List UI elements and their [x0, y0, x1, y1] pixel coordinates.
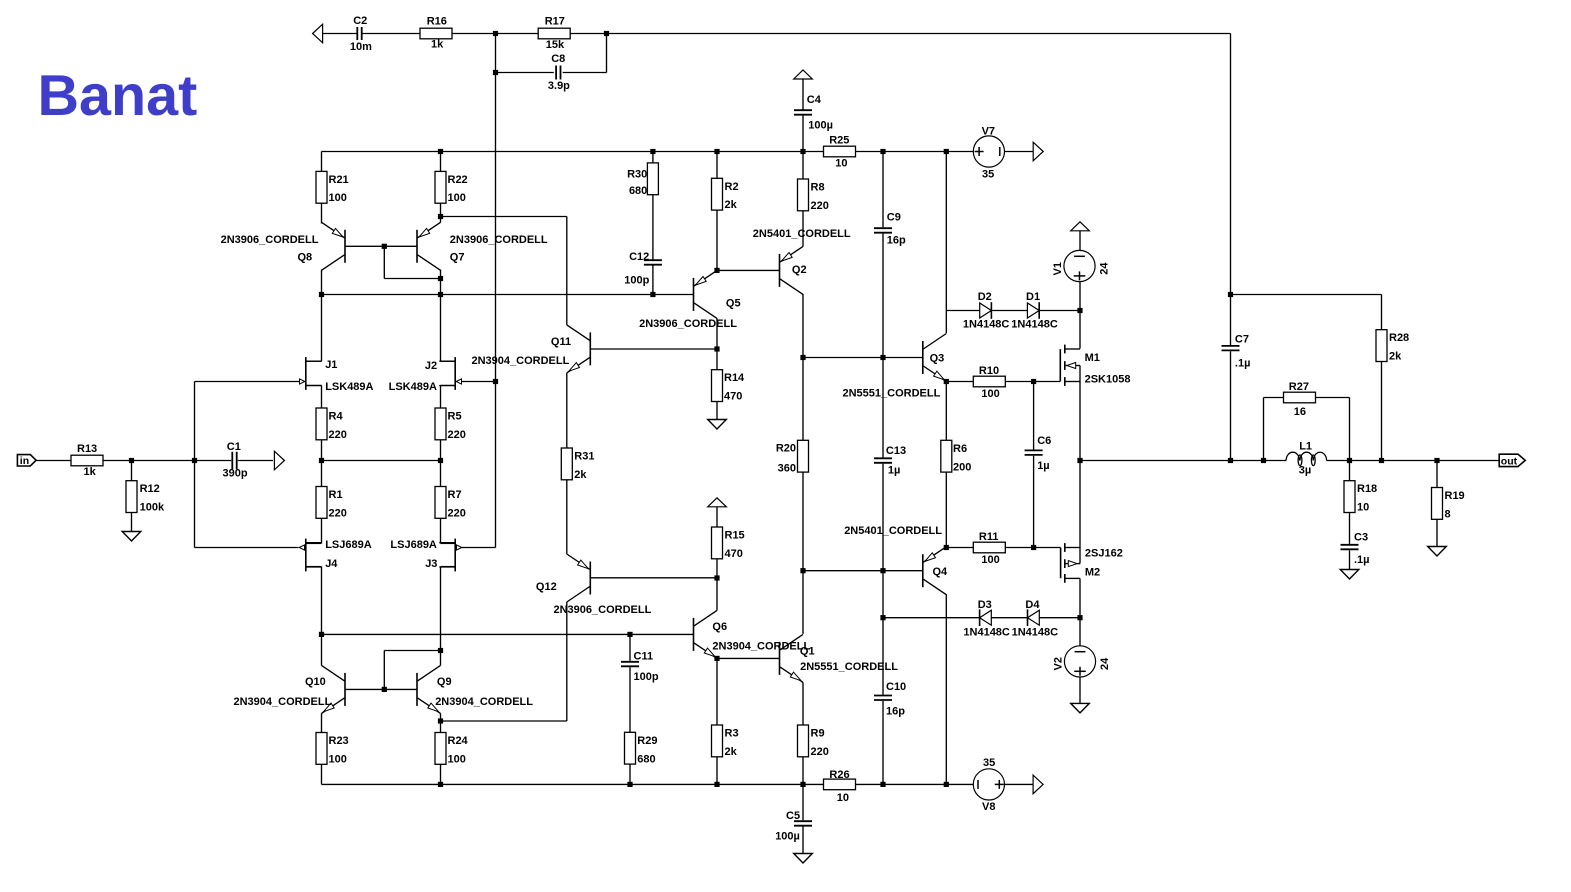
wire: [321, 634, 323, 665]
svg-text:C7: C7: [1235, 333, 1249, 345]
capacitor C12: [644, 259, 662, 261]
svg-text:1µ: 1µ: [888, 465, 900, 477]
svg-text:LSJ689A: LSJ689A: [325, 539, 372, 551]
svg-text:1µ: 1µ: [1037, 460, 1049, 472]
resistor R24: [435, 733, 446, 765]
wire: [716, 578, 718, 611]
svg-text:8: 8: [1445, 508, 1451, 520]
svg-text:1N4148C: 1N4148C: [963, 318, 1010, 330]
junction: [1261, 458, 1266, 463]
svg-text:Q10: Q10: [305, 676, 326, 688]
svg-text:R14: R14: [724, 372, 745, 384]
svg-text:out: out: [1501, 455, 1518, 467]
svg-text:Q2: Q2: [792, 264, 807, 276]
wire: [440, 295, 442, 362]
capacitor C9: [874, 227, 892, 229]
junction: [493, 31, 498, 36]
svg-text:J2: J2: [425, 360, 437, 372]
wire: [1079, 578, 1081, 617]
svg-text:R26: R26: [829, 769, 849, 781]
junction: [129, 458, 134, 463]
svg-text:C10: C10: [886, 681, 906, 693]
svg-text:C6: C6: [1037, 435, 1051, 447]
resistor R25: [824, 146, 856, 157]
junction: [880, 615, 885, 620]
svg-text:R20: R20: [776, 442, 796, 454]
junction: [319, 458, 324, 463]
svg-text:390p: 390p: [223, 467, 248, 479]
wire: [194, 382, 196, 548]
wire: [716, 658, 718, 725]
wire: [566, 217, 568, 325]
transistor Q3 2N5551_CORDELL: [922, 341, 924, 374]
junction: [382, 687, 387, 692]
wire: [1436, 461, 1438, 488]
capacitor C10: [874, 695, 892, 697]
svg-text:35: 35: [982, 169, 994, 181]
transistor Q10 2N3904_CORDELL: [344, 673, 346, 706]
wire: [1316, 397, 1350, 399]
junction: [382, 244, 387, 249]
junction: [493, 70, 498, 75]
wire: [629, 667, 631, 732]
svg-text:100: 100: [981, 388, 999, 400]
svg-text:3.9p: 3.9p: [548, 80, 570, 92]
wire: [440, 651, 442, 666]
wire: [322, 633, 694, 635]
wire: [1230, 34, 1232, 295]
svg-text:.1µ: .1µ: [1354, 554, 1370, 566]
svg-text:J3: J3: [425, 558, 437, 570]
capacitor C6: [1025, 449, 1043, 451]
junction: [944, 782, 949, 787]
svg-text:C12: C12: [629, 251, 649, 263]
svg-text:100: 100: [329, 192, 347, 204]
wire: [717, 269, 780, 271]
wire: [882, 234, 884, 358]
svg-text:V1: V1: [1052, 262, 1064, 275]
capacitor C4: [794, 109, 812, 111]
wire: [1039, 617, 1080, 619]
wire: [1005, 381, 1033, 383]
svg-text:R11: R11: [979, 531, 999, 543]
svg-text:R24: R24: [448, 735, 469, 747]
svg-text:2SK1058: 2SK1058: [1085, 374, 1131, 386]
svg-text:R12: R12: [140, 483, 160, 495]
wire: [495, 34, 497, 548]
svg-text:470: 470: [724, 391, 742, 403]
junction: [800, 149, 805, 154]
svg-text:100k: 100k: [140, 502, 165, 514]
resistor R1: [316, 487, 327, 519]
svg-text:R18: R18: [1357, 483, 1377, 495]
wire: [802, 115, 804, 152]
wire: [1033, 456, 1035, 548]
capacitor C13: [874, 457, 892, 459]
wire: [440, 764, 442, 784]
svg-text:R19: R19: [1445, 490, 1465, 502]
wire: [321, 33, 357, 35]
resistor R30: [647, 163, 658, 195]
ground: [1071, 703, 1090, 713]
resistor R4: [316, 408, 327, 440]
wire: [321, 440, 323, 461]
svg-text:2N3906_CORDELL: 2N3906_CORDELL: [221, 234, 319, 246]
ground: [122, 532, 141, 542]
svg-text:24: 24: [1099, 657, 1111, 670]
svg-text:2N3904_CORDELL: 2N3904_CORDELL: [471, 355, 569, 367]
resistor R5: [435, 408, 446, 440]
svg-text:470: 470: [725, 548, 743, 560]
wire: [440, 386, 442, 409]
wire: [306, 360, 322, 362]
voltage source V7 35: [973, 136, 1004, 167]
resistor R29: [625, 732, 636, 764]
wire: [1349, 513, 1351, 544]
svg-text:R31: R31: [574, 451, 594, 463]
svg-text:LSJ689A: LSJ689A: [390, 539, 437, 551]
resistor R11: [973, 542, 1005, 553]
voltage source V2 24: [1064, 646, 1095, 677]
svg-text:R21: R21: [329, 174, 349, 186]
diode D4 1N4148C: [1028, 610, 1040, 625]
svg-text:V7: V7: [982, 126, 995, 138]
svg-text:R7: R7: [448, 489, 462, 501]
ground: [1340, 570, 1359, 580]
resistor R3: [712, 725, 723, 757]
svg-text:Q9: Q9: [437, 676, 452, 688]
svg-text:2k: 2k: [725, 199, 738, 211]
wire: [440, 713, 442, 732]
svg-text:Q8: Q8: [298, 252, 313, 264]
wire: [345, 688, 417, 690]
svg-text:R17: R17: [545, 15, 565, 27]
wire: [1034, 381, 1061, 383]
svg-text:100µ: 100µ: [808, 120, 833, 132]
svg-text:200: 200: [953, 461, 971, 473]
diode D2 1N4148C: [980, 303, 992, 318]
svg-text:C9: C9: [887, 211, 901, 223]
junction: [1379, 458, 1384, 463]
junction: [1077, 458, 1082, 463]
wire: [322, 460, 441, 462]
ground: [708, 420, 727, 430]
svg-text:V8: V8: [982, 801, 995, 813]
svg-text:R27: R27: [1289, 381, 1309, 393]
junction: [944, 379, 949, 384]
resistor R26: [824, 779, 856, 790]
junction: [714, 575, 719, 580]
junction: [880, 355, 885, 360]
wire: [322, 151, 974, 153]
svg-text:100: 100: [981, 554, 999, 566]
resistor R16: [420, 28, 452, 39]
svg-text:220: 220: [448, 429, 466, 441]
svg-text:R13: R13: [77, 443, 97, 455]
svg-text:680: 680: [637, 753, 655, 765]
svg-text:10m: 10m: [350, 41, 372, 53]
wire: [321, 518, 323, 543]
junction: [714, 656, 719, 661]
wire: [716, 349, 718, 370]
wire: [321, 386, 323, 409]
svg-text:16: 16: [1294, 406, 1306, 418]
io pin in: [17, 455, 36, 466]
wire: [440, 270, 442, 295]
svg-text:3µ: 3µ: [1299, 464, 1311, 476]
wire: [570, 33, 1230, 35]
wire: [802, 784, 804, 820]
wire: [802, 682, 804, 725]
wire: [882, 152, 884, 228]
wire: [345, 245, 417, 247]
junction: [1434, 458, 1439, 463]
wire: [384, 650, 440, 652]
wire: [1079, 311, 1081, 349]
svg-text:2N3904_CORDELL: 2N3904_CORDELL: [712, 641, 810, 653]
junction: [880, 782, 885, 787]
wire: [716, 318, 718, 349]
wire: [716, 152, 718, 179]
resistor R13: [71, 455, 103, 466]
svg-text:1N4148C: 1N4148C: [1012, 627, 1059, 639]
svg-text:2k: 2k: [1389, 351, 1402, 363]
svg-text:R2: R2: [725, 181, 739, 193]
wire: [103, 460, 195, 462]
svg-text:C13: C13: [886, 445, 906, 457]
junction: [438, 458, 443, 463]
junction: [650, 292, 655, 297]
wire: [945, 594, 947, 784]
wire: [1005, 783, 1034, 785]
junction: [438, 292, 443, 297]
wire: [1349, 461, 1351, 481]
capacitor C3: [1341, 544, 1359, 546]
svg-text:100: 100: [448, 753, 466, 765]
svg-text:220: 220: [811, 200, 829, 212]
junction: [627, 632, 632, 637]
inductor L1: [1286, 452, 1299, 460]
svg-text:R9: R9: [811, 728, 825, 740]
svg-text:1k: 1k: [431, 39, 444, 51]
wire: [384, 278, 440, 280]
svg-text:R23: R23: [329, 735, 349, 747]
junction: [493, 379, 498, 384]
svg-text:2N3906_CORDELL: 2N3906_CORDELL: [554, 604, 652, 616]
wire: [238, 460, 273, 462]
svg-text:Banat: Banat: [38, 64, 198, 128]
svg-text:R3: R3: [725, 728, 739, 740]
wire: [1079, 231, 1081, 251]
capacitor C8: [555, 66, 557, 80]
svg-text:Q3: Q3: [930, 353, 945, 365]
svg-text:R10: R10: [979, 365, 999, 377]
svg-text:J4: J4: [325, 558, 338, 570]
svg-text:V2: V2: [1053, 657, 1065, 670]
junction: [438, 718, 443, 723]
wire: [802, 757, 804, 785]
wire: [802, 79, 804, 110]
wire: [883, 617, 980, 619]
wire: [321, 764, 323, 784]
svg-text:LSK489A: LSK489A: [325, 381, 373, 393]
svg-text:2N5551_CORDELL: 2N5551_CORDELL: [843, 388, 941, 400]
wire: [306, 566, 322, 568]
svg-text:100µ: 100µ: [775, 830, 800, 842]
wire: [195, 460, 232, 462]
resistor R12: [126, 481, 137, 513]
wire: [652, 265, 654, 295]
resistor R10: [973, 376, 1005, 387]
svg-text:10: 10: [1357, 502, 1369, 514]
capacitor C11: [621, 661, 639, 663]
svg-text:2N5401_CORDELL: 2N5401_CORDELL: [844, 525, 942, 537]
junction: [438, 648, 443, 653]
wire: [441, 216, 567, 218]
wire: [496, 72, 554, 74]
wire: [440, 461, 442, 487]
svg-text:R29: R29: [637, 735, 657, 747]
junction: [1077, 308, 1082, 313]
transistor Q8 2N3906_CORDELL: [344, 230, 346, 263]
transistor M1 2SK1058: [1059, 349, 1061, 381]
wire: [882, 701, 884, 785]
svg-text:R4: R4: [329, 411, 344, 423]
junction: [438, 782, 443, 787]
wire: [590, 577, 717, 579]
svg-text:.1µ: .1µ: [1235, 358, 1251, 370]
wire: [882, 571, 884, 695]
svg-text:Q5: Q5: [726, 297, 741, 309]
svg-text:J1: J1: [325, 359, 337, 371]
wire: [306, 542, 322, 544]
wire: [321, 713, 323, 732]
transistor Q12 2N3906_CORDELL: [589, 562, 591, 595]
wire: [441, 566, 456, 568]
svg-text:C2: C2: [353, 15, 367, 27]
wire: [1079, 282, 1081, 311]
wire: [946, 547, 973, 549]
wire: [802, 294, 804, 440]
voltage source V8 35: [973, 769, 1004, 800]
wire: [195, 381, 300, 383]
transistor Q11 2N3904_CORDELL: [589, 332, 591, 365]
wire: [945, 472, 947, 547]
svg-text:15k: 15k: [546, 39, 565, 51]
wire: [1231, 294, 1382, 296]
svg-text:R22: R22: [448, 174, 468, 186]
svg-text:C11: C11: [634, 651, 654, 663]
junction: [438, 214, 443, 219]
junction: [714, 268, 719, 273]
wire: [1079, 677, 1081, 703]
ground: [1428, 547, 1447, 557]
transistor Q1 2N5551_CORDELL: [779, 642, 781, 675]
resistor R7: [435, 487, 446, 519]
wire: [716, 757, 718, 785]
io pin out: [1499, 454, 1525, 466]
wire: [803, 570, 923, 572]
junction: [1031, 545, 1036, 550]
svg-text:L1: L1: [1299, 441, 1312, 453]
transistor J1 LSK489A: [305, 357, 307, 390]
wire: [946, 310, 979, 312]
wire: [383, 246, 385, 278]
wire: [1263, 398, 1265, 461]
net arrow: [1033, 142, 1043, 161]
svg-text:16p: 16p: [887, 234, 906, 246]
svg-text:100p: 100p: [634, 671, 659, 683]
resistor R6: [941, 440, 952, 472]
junction: [1228, 458, 1233, 463]
wire: [1230, 295, 1232, 346]
wire: [1033, 382, 1035, 450]
wire: [321, 203, 323, 223]
svg-text:100: 100: [329, 753, 347, 765]
svg-text:2N3906_CORDELL: 2N3906_CORDELL: [450, 234, 548, 246]
wire: [1079, 461, 1081, 548]
wire: [1039, 310, 1080, 312]
svg-text:D4: D4: [1025, 599, 1040, 611]
resistor R14: [712, 370, 723, 402]
wire: [563, 72, 607, 74]
wire: [440, 518, 442, 543]
transistor Q4 2N5401_CORDELL: [922, 554, 924, 587]
svg-text:2N3904_CORDELL: 2N3904_CORDELL: [435, 696, 533, 708]
svg-text:R30: R30: [627, 168, 647, 180]
wire: [1327, 460, 1500, 462]
wire: [321, 461, 323, 487]
junction: [714, 346, 719, 351]
transistor J4 LSJ689A: [305, 539, 307, 572]
svg-text:LSK489A: LSK489A: [389, 381, 437, 393]
transistor M2 2SJ162: [1060, 548, 1062, 579]
junction: [319, 292, 324, 297]
wire: [131, 461, 133, 481]
junction: [800, 355, 805, 360]
junction: [880, 149, 885, 154]
transistor J2 LSK489A: [454, 357, 456, 390]
svg-text:16p: 16p: [886, 706, 905, 718]
transistor Q2 2N5401_CORDELL: [779, 254, 781, 287]
svg-text:R25: R25: [829, 134, 849, 146]
resistor R19: [1432, 488, 1443, 520]
wire: [462, 547, 496, 549]
svg-text:10: 10: [837, 792, 849, 804]
junction: [650, 149, 655, 154]
svg-text:360: 360: [778, 462, 796, 474]
svg-text:in: in: [20, 455, 29, 467]
svg-text:220: 220: [329, 507, 347, 519]
svg-text:2k: 2k: [574, 469, 587, 481]
wire: [1079, 366, 1081, 461]
svg-text:C3: C3: [1354, 531, 1368, 543]
wire: [1349, 550, 1351, 569]
wire: [322, 783, 824, 785]
svg-text:C4: C4: [807, 94, 822, 106]
junction: [438, 276, 443, 281]
svg-text:680: 680: [629, 185, 647, 197]
wire: [629, 634, 631, 661]
wire: [882, 358, 884, 458]
resistor R2: [712, 178, 723, 210]
svg-text:C1: C1: [227, 441, 241, 453]
svg-text:C5: C5: [786, 810, 800, 822]
wire: [566, 602, 568, 721]
svg-text:1N4148C: 1N4148C: [1011, 318, 1058, 330]
wire: [195, 547, 299, 549]
wire: [36, 460, 71, 462]
